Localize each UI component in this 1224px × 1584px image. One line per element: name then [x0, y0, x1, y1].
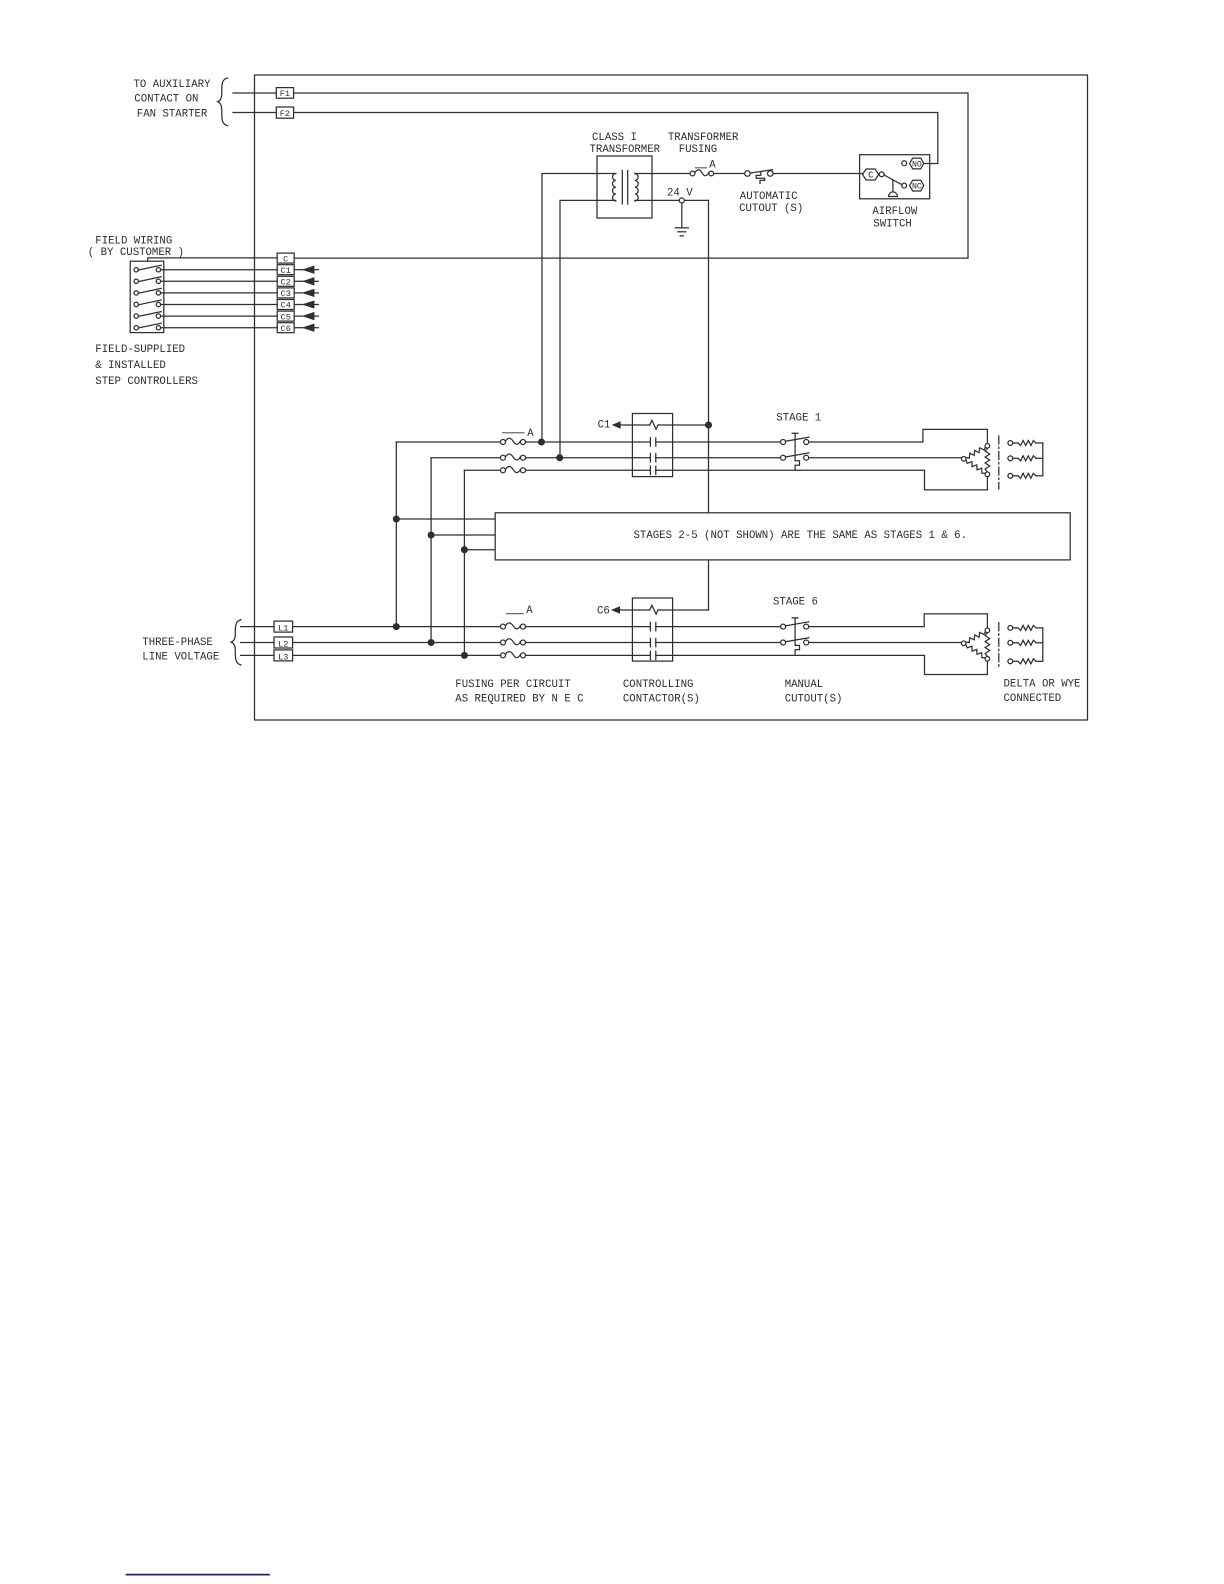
- fuse stage6 B: [501, 640, 506, 645]
- wire stage6 B cutout to heater: [809, 642, 962, 644]
- fuse stage1 A: [501, 440, 506, 445]
- wire F1 to C terminal (via right side): [294, 93, 968, 258]
- wire stub stages box A: [396, 518, 495, 520]
- step controller switches 1-6: [134, 268, 138, 272]
- ground symbol: [681, 203, 683, 228]
- wire stage6 C contactor to heater: [656, 655, 988, 674]
- wire F1 stub: [233, 92, 276, 94]
- svg-text:L3: L3: [278, 652, 288, 662]
- svg-text:A: A: [526, 605, 533, 617]
- manual cutout stage1 pole B: [781, 455, 786, 460]
- wire transformer secondary bottom 24V: [635, 199, 709, 201]
- terminal L1: [274, 621, 293, 632]
- svg-text:A: A: [527, 428, 534, 440]
- svg-text:CONTACT ON: CONTACT ON: [134, 94, 198, 106]
- svg-text:CUTOUT (S): CUTOUT (S): [739, 203, 803, 215]
- svg-text:24 V: 24 V: [667, 187, 693, 199]
- wire L2 stub: [241, 642, 274, 644]
- manual cutout stage6 linkage: [792, 617, 798, 619]
- manual cutout stage1 pole A: [781, 440, 786, 445]
- wire 24V return down to contactor coils: [708, 200, 710, 610]
- wire stage6 A fuse to contactor: [526, 626, 651, 628]
- svg-text:TRANSFORMER: TRANSFORMER: [668, 132, 739, 144]
- wire stage1 A fuse to contactor: [526, 441, 651, 443]
- wire riser phase C: [463, 470, 465, 655]
- svg-text:THREE-PHASE: THREE-PHASE: [142, 637, 213, 649]
- junction dot C1 coil to 24V return: [706, 422, 712, 428]
- svg-text:STAGE 1: STAGE 1: [776, 412, 821, 424]
- enclosure box (unit casing): [255, 75, 1088, 720]
- wire L1 stub: [241, 626, 274, 628]
- wire stage6 A contactor to cutout: [656, 626, 781, 628]
- manual cutout stage1 linkage: [792, 432, 798, 434]
- terminal L3: [274, 650, 293, 661]
- label A transformer fuse rating: [696, 167, 707, 169]
- heater wye stage1: [1008, 441, 1013, 446]
- wire stub stages box C: [464, 549, 495, 551]
- node 24V terminal: [679, 198, 684, 203]
- fuse stage6 A: [501, 624, 506, 629]
- svg-text:C: C: [868, 171, 873, 181]
- automatic cutout switch: [745, 171, 751, 177]
- wire cutout to airflow C: [773, 173, 862, 175]
- wire stage1 B cutout to heater: [809, 457, 962, 459]
- junction dot riser A to stages box: [393, 516, 399, 522]
- airflow terminal NO: [910, 158, 924, 169]
- junction dot L3 riser: [462, 653, 468, 659]
- svg-text:FUSING PER CIRCUIT: FUSING PER CIRCUIT: [455, 679, 571, 691]
- wire stage6 B contactor to cutout: [656, 642, 781, 644]
- svg-text:C2: C2: [281, 278, 291, 288]
- wire stage6 A cutout to heater: [809, 614, 988, 628]
- wire stub stages box B: [431, 534, 495, 536]
- svg-text:TRANSFORMER: TRANSFORMER: [590, 144, 661, 156]
- svg-text:A: A: [709, 160, 716, 172]
- svg-text:TO AUXILIARY: TO AUXILIARY: [134, 79, 212, 91]
- svg-text:FAN STARTER: FAN STARTER: [137, 108, 208, 120]
- svg-text:FUSING: FUSING: [679, 144, 717, 156]
- fuse stage6 C: [501, 653, 506, 658]
- wires switches to terminals C1-C6: [161, 269, 278, 271]
- svg-text:FIELD-SUPPLIED: FIELD-SUPPLIED: [95, 344, 185, 356]
- svg-text:STAGE 6: STAGE 6: [773, 597, 818, 609]
- wire stage1 C contactor to heater: [656, 470, 988, 490]
- fuse stage1 C: [501, 468, 506, 473]
- airflow switch box: [860, 155, 930, 199]
- svg-text:STAGES 2-5 (NOT SHOWN) ARE THE: STAGES 2-5 (NOT SHOWN) ARE THE SAME AS S…: [634, 530, 968, 542]
- divider dash-dot stage6: [998, 623, 1000, 668]
- svg-text:LINE VOLTAGE: LINE VOLTAGE: [142, 652, 219, 664]
- brace for line voltage wires: [231, 620, 241, 665]
- svg-text:L1: L1: [278, 624, 288, 634]
- svg-text:F1: F1: [280, 89, 290, 99]
- contactor C6 contacts: [649, 622, 651, 630]
- svg-text:DELTA OR WYE: DELTA OR WYE: [1004, 678, 1081, 690]
- wire L3 to fuse: [293, 654, 501, 656]
- wire stage1 C to fuse: [464, 469, 500, 471]
- svg-text:MANUAL: MANUAL: [785, 679, 823, 691]
- svg-text:& INSTALLED: & INSTALLED: [95, 360, 166, 372]
- label A stage6 fuse rating: [507, 613, 523, 615]
- wire stage1 B fuse to contactor: [526, 457, 651, 459]
- svg-text:C: C: [283, 254, 288, 264]
- wire F2 to airflow NO: [294, 113, 938, 164]
- junction dot primary tap A: [539, 439, 545, 445]
- wire stage1 B contactor to cutout: [656, 457, 781, 459]
- wire L2 to fuse: [293, 642, 501, 644]
- heater delta stage6: [966, 631, 986, 642]
- contactor C1 coil: [620, 424, 650, 426]
- brace for fan starter wires: [218, 78, 228, 126]
- svg-text:CONNECTED: CONNECTED: [1004, 693, 1062, 705]
- junction dot riser B to stages box: [428, 532, 434, 538]
- svg-text:CUTOUT(S): CUTOUT(S): [785, 694, 843, 706]
- terminal strip C C1-C6: [277, 253, 294, 263]
- transformer fuse F-A: [690, 171, 695, 176]
- svg-text:CONTROLLING: CONTROLLING: [623, 679, 694, 691]
- svg-text:SWITCH: SWITCH: [873, 218, 911, 230]
- wire F2 stub: [233, 112, 276, 114]
- svg-text:C1: C1: [598, 420, 611, 432]
- heater delta stage1: [966, 447, 986, 458]
- wire transformer primary bottom to stage1 phase B: [560, 200, 616, 457]
- airflow NO contact circle: [902, 161, 907, 166]
- svg-text:L2: L2: [278, 639, 288, 649]
- step controller switch box: [130, 261, 164, 332]
- svg-text:AUTOMATIC: AUTOMATIC: [740, 191, 798, 203]
- terminal F2: [276, 107, 293, 118]
- terminal F1: [276, 88, 293, 99]
- wire transformer primary top to stage1 phase A: [542, 174, 616, 443]
- stages 2-5 note box: [495, 513, 1070, 560]
- wire common to terminal C: [148, 258, 278, 261]
- svg-text:STEP CONTROLLERS: STEP CONTROLLERS: [95, 376, 198, 388]
- junction dot L2 riser: [428, 640, 434, 646]
- svg-text:C6: C6: [281, 324, 291, 334]
- transformer T1 box: [597, 156, 652, 218]
- svg-text:C5: C5: [281, 312, 291, 322]
- terminal L2: [274, 637, 293, 648]
- heater wye stage6: [1008, 626, 1013, 631]
- wire stage1 A cutout to heater: [809, 429, 988, 443]
- svg-text:FIELD WIRING: FIELD WIRING: [95, 236, 172, 248]
- fuse stage1 B: [501, 455, 506, 460]
- wire riser phase B: [430, 458, 432, 643]
- airflow terminal C: [863, 169, 879, 180]
- svg-text:F2: F2: [280, 109, 290, 119]
- label A stage1 fuse rating: [503, 432, 524, 434]
- contactor C1 contacts: [649, 438, 651, 446]
- wire fuse to automatic cutout: [714, 173, 745, 175]
- svg-text:NO: NO: [912, 161, 922, 170]
- divider dash-dot stage1: [998, 436, 1000, 489]
- airflow common pivot: [879, 172, 884, 177]
- arrows into terminals C1-C6: [294, 269, 304, 271]
- svg-text:C6: C6: [597, 606, 610, 618]
- airflow terminal NC: [910, 180, 924, 191]
- junction dot primary tap B: [557, 455, 563, 461]
- svg-text:AIRFLOW: AIRFLOW: [872, 206, 917, 218]
- wire stage1 A contactor to cutout: [656, 441, 781, 443]
- footer blue rule: [127, 1574, 270, 1576]
- wire transformer secondary top to fuse: [635, 173, 690, 175]
- wire L1 to fuse: [293, 626, 501, 628]
- svg-text:NC: NC: [912, 183, 922, 192]
- wire stage1 B to fuse: [431, 457, 500, 459]
- svg-text:CLASS I: CLASS I: [592, 132, 637, 144]
- manual cutout stage6 pole B: [781, 640, 786, 645]
- wire stage6 C fuse to contactor: [526, 654, 651, 656]
- svg-text:C3: C3: [281, 289, 291, 299]
- wire stage1 A to fuse: [396, 441, 500, 443]
- airflow actuator bellows: [892, 180, 894, 192]
- airflow switch blade: [884, 175, 902, 185]
- svg-text:CONTACTOR(S): CONTACTOR(S): [623, 694, 700, 706]
- junction dot L1 riser: [393, 624, 399, 630]
- svg-text:C4: C4: [281, 301, 291, 311]
- wire stage6 B fuse to contactor: [526, 642, 651, 644]
- svg-text:AS REQUIRED BY N E C: AS REQUIRED BY N E C: [455, 694, 583, 706]
- wire stage1 C fuse to contactor: [526, 469, 651, 471]
- junction dot riser C to stages box: [462, 547, 468, 553]
- contactor C6 box: [632, 598, 672, 661]
- svg-text:C1: C1: [281, 266, 291, 276]
- transformer T1 windings and core: [612, 174, 615, 202]
- wire L3 stub: [241, 654, 274, 656]
- contactor C1 box: [632, 414, 672, 477]
- airflow NC contact circle: [902, 183, 907, 188]
- wire riser phase A: [395, 442, 397, 627]
- manual cutout stage6 pole A: [781, 624, 786, 629]
- contactor C6 coil: [619, 609, 649, 611]
